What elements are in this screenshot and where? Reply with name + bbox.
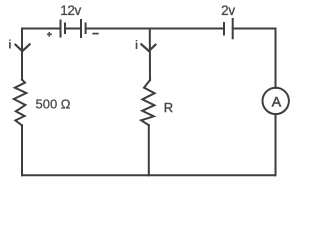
wire W6: right branch lower (ammeter to bottom-right corner): [275, 114, 277, 175]
current arrow i1 head (left branch, pointing down): [15, 44, 29, 51]
wire W3: top rail middle segment (12v − plate to 2v battery): [86, 28, 224, 30]
battery V1 (12v): cell 2 long plate: [80, 20, 82, 37]
battery V1 (12v): cell 1 long plate (+): [60, 21, 62, 37]
svg-text:i: i: [8, 38, 11, 52]
label: − polarity of V1 (drawn minus): [92, 33, 98, 35]
resistor R2: R zigzag: [141, 80, 154, 125]
resistor R1: 500 ohm zigzag: [14, 80, 26, 126]
wire W11: middle branch lower (R2 to bottom rail junction): [148, 125, 150, 175]
wire W4: top rail right segment (2v battery to top-right corner): [233, 28, 276, 30]
ammeter A1: meter body circle: [263, 88, 289, 114]
svg-text:12v: 12v: [60, 3, 81, 18]
wire W1: top rail left segment (top-left corner to 12v battery + plate): [22, 28, 61, 30]
wire W2: link between the two cells of V1: [65, 28, 81, 30]
svg-text:2v: 2v: [221, 3, 235, 18]
battery V2 (2v): short plate (left): [223, 23, 225, 35]
battery V1 (12v): cell 2 short plate (−): [85, 24, 87, 34]
svg-text:R: R: [164, 100, 173, 115]
svg-text:i: i: [135, 38, 138, 52]
svg-text:500 Ω: 500 Ω: [36, 97, 71, 112]
wire W9: left branch lower (R1 to bottom-left corner): [21, 125, 23, 175]
wire W8: left branch upper (top-left corner down to resistor R1): [21, 29, 23, 80]
battery V2 (2v): long plate (right): [232, 19, 234, 38]
wire W7: bottom rail: [22, 174, 276, 176]
wire W10: middle branch upper (top rail junction down to resistor R2): [149, 29, 151, 81]
svg-text:A: A: [272, 94, 282, 110]
battery V1 (12v): cell 1 short plate: [64, 24, 66, 34]
label: + polarity of V1 (drawn plus): [47, 32, 52, 37]
current arrow i2 head (middle branch, pointing down): [141, 44, 155, 51]
wire W5: right branch upper (top-right corner down to ammeter): [275, 29, 277, 88]
